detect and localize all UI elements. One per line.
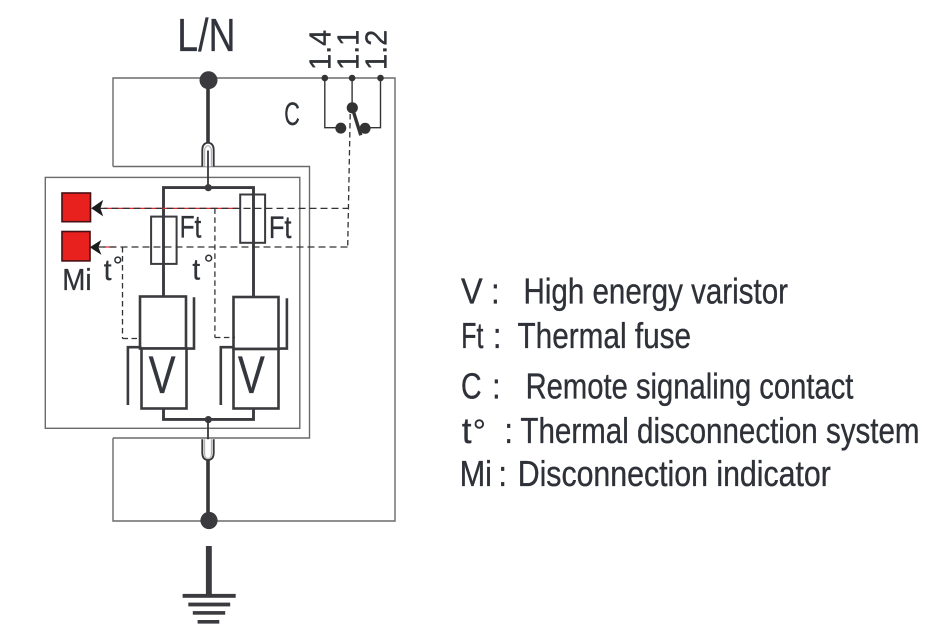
arrow to Mi upper [91,200,103,217]
varistor V1 left break mark [128,347,142,405]
plug-in module outline [45,177,299,428]
svg-text:L/N: L/N [177,9,235,61]
svg-text::: : [498,454,507,495]
wire: bottom branch [164,409,254,420]
dashed link: upper Mi line [101,207,349,209]
switch arm [352,108,361,135]
dashed t-box mid vertical [214,208,216,337]
svg-text:t: t [192,254,200,287]
svg-text:t: t [462,410,472,451]
dashed t-box left bottom [123,338,141,340]
svg-text::: : [491,271,500,312]
dashed t-box left vertical [122,247,124,339]
node: ground terminal [200,512,217,529]
svg-text:V: V [461,272,483,312]
node: switch pivot [347,102,358,113]
disconnection indicator Mi square lower [62,232,90,261]
node: module bottom junction [205,416,212,423]
thermal fuse Ft2 (right) [240,195,265,243]
dashed t-box mid bottom [215,337,235,339]
device enclosure outline [113,78,395,521]
svg-text::: : [493,315,502,356]
remote signaling contact C: terminal stubs [325,78,381,128]
protection module inner frame [113,167,310,439]
varistor V2 left break mark [221,347,234,405]
svg-text:1.2: 1.2 [360,30,394,70]
svg-text:Disconnection indicator: Disconnection indicator [518,454,831,494]
wire: L/N terminal to top disconnector [206,82,210,144]
dashed link: lower Mi line [99,246,349,248]
varistor V2 lower body [234,349,279,409]
svg-text:Mi: Mi [62,264,91,297]
wire: top branch [164,188,254,297]
varistor V1 lower body [142,349,187,409]
svg-text:Thermal disconnection system: Thermal disconnection system [520,411,919,452]
red signal link lower [103,246,116,248]
node: terminal 1.2 [377,75,384,82]
node: terminal 1.4 [322,75,329,82]
dashed link: C contact drop [348,114,351,247]
varistor V1 upper body [140,297,186,349]
wire: disconnector to module junction [207,151,209,187]
svg-text:Ft: Ft [461,315,483,356]
disconnector contact bottom [202,439,213,460]
svg-text:Remote signaling contact: Remote signaling contact [526,366,854,407]
node: module top junction [205,184,212,191]
wire: bottom disconnector to ground terminal [206,461,210,516]
svg-text:Mi: Mi [460,454,492,495]
svg-text::: : [492,366,501,407]
svg-text:Thermal fuse: Thermal fuse [518,316,692,357]
node: contact left [335,123,346,134]
red signal link upper [104,207,238,209]
svg-text:t: t [104,255,112,288]
svg-text:Ft: Ft [269,210,292,245]
thermal fuse Ft1 (left) [151,217,177,264]
svg-text:High energy varistor: High energy varistor [524,271,788,312]
svg-text:C: C [284,96,300,132]
arrow to Mi lower [90,240,102,255]
svg-text:Ft: Ft [180,209,202,245]
ground symbol [183,546,236,624]
disconnection indicator Mi square upper [62,193,91,222]
svg-text:V: V [149,346,176,406]
svg-text::: : [504,410,513,451]
node: L/N terminal [200,71,218,89]
wire: bottom junction to bottom disconnector [207,420,209,457]
varistor V1 right break mark [186,297,194,348]
svg-text:V: V [238,346,265,406]
node: terminal 1.1 [349,75,356,82]
disconnector contact top [202,143,213,167]
legend [460,271,920,495]
node: contact right [360,123,371,134]
svg-text:C: C [461,365,482,406]
varistor V2 upper body [234,297,279,349]
varistor V2 right break mark [279,298,287,348]
